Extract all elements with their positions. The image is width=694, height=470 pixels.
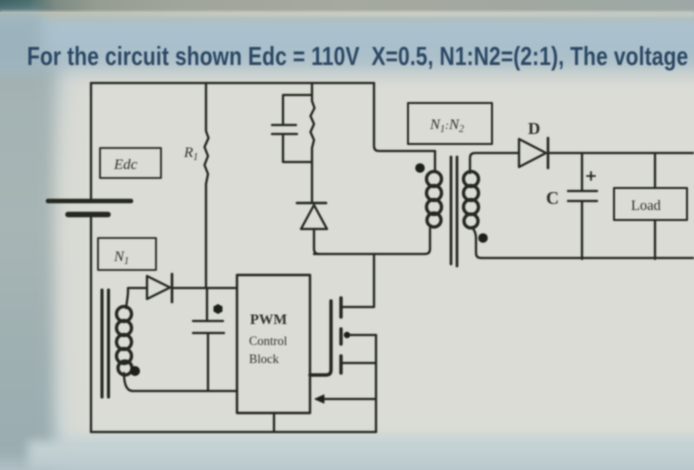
aux winding coil — [117, 307, 133, 376]
svg-text:N1:N2: N1:N2 — [429, 117, 464, 135]
MOSFET body lead — [345, 334, 376, 336]
wire top rail — [91, 82, 374, 84]
node dot aux winding — [130, 366, 140, 376]
clamp diode — [297, 202, 326, 205]
wire secondary top — [470, 153, 519, 173]
svg-text:Block: Block — [249, 352, 280, 366]
node dot primary — [415, 163, 425, 173]
label box N1:N2 — [408, 103, 492, 144]
label box N1 (aux winding) — [98, 238, 156, 270]
plus sign — [587, 172, 595, 180]
wire source down — [375, 335, 377, 432]
svg-text:PWM: PWM — [250, 312, 287, 328]
transformer primary winding — [434, 151, 436, 172]
transformer core main — [451, 157, 457, 266]
svg-text:D: D — [528, 119, 540, 138]
wire bottom rail — [91, 431, 376, 433]
MOSFET body dot — [344, 332, 350, 338]
PWM control block box — [237, 275, 310, 413]
battery Edc — [48, 199, 131, 204]
svg-text:R1: R1 — [183, 145, 198, 163]
resistor R1 — [205, 83, 209, 288]
label box Edc — [100, 148, 161, 178]
wire drain rail — [314, 228, 430, 254]
node junction dot — [214, 304, 223, 314]
MOSFET Q1 gate plate — [310, 301, 331, 375]
wire top jog to primary — [374, 83, 435, 151]
capacitor C output — [568, 153, 597, 259]
transformer core aux — [102, 290, 109, 397]
clamp resistor — [311, 84, 315, 202]
svg-text:Control: Control — [249, 334, 288, 348]
wire left rail lower — [90, 216, 92, 432]
MOSFET drain lead — [341, 254, 374, 307]
feedback arrow — [322, 398, 376, 400]
diode D output — [519, 139, 546, 167]
title text — [0, 41, 694, 73]
MOSFET channel dashes — [339, 298, 342, 373]
svg-text:N1: N1 — [113, 249, 129, 267]
diode aux — [147, 276, 170, 299]
wire left rail upper — [90, 83, 92, 200]
transformer secondary winding — [464, 172, 479, 229]
wire secondary bottom — [472, 227, 481, 258]
wire aux winding top — [126, 288, 146, 308]
node dot secondary — [478, 233, 488, 243]
svg-text:Load: Load — [631, 198, 662, 214]
load box — [614, 188, 687, 220]
wire load taps — [654, 153, 656, 259]
svg-text:C: C — [546, 188, 559, 208]
wire junction to PWM — [174, 287, 237, 289]
wire PWM bottom tap — [273, 413, 275, 432]
wire output bottom rail — [481, 257, 694, 259]
MOSFET source lead — [341, 362, 376, 364]
wire aux bottom to PWM — [124, 373, 237, 391]
capacitor aux — [193, 288, 224, 391]
svg-text:Edc: Edc — [113, 157, 138, 173]
wire output top rail — [548, 152, 694, 154]
clamp capacitor — [272, 95, 312, 162]
